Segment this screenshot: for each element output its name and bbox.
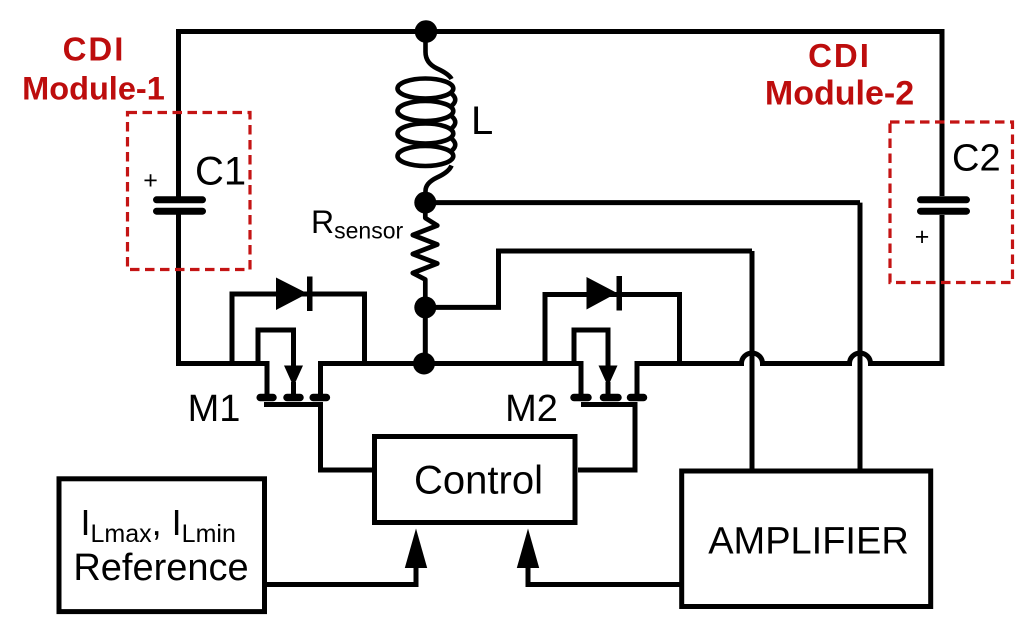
svg-text:+: + bbox=[143, 167, 158, 195]
inductor L exit squiggle bbox=[426, 166, 452, 203]
wire amplifier input vertical left bbox=[750, 251, 755, 471]
capacitor C2 plates bbox=[921, 200, 967, 211]
svg-text:Module-2: Module-2 bbox=[765, 75, 914, 113]
mosfet M1 arrow tail bbox=[291, 382, 296, 396]
wire resistor bottom node to amplifier bbox=[425, 251, 752, 307]
capacitor C1 plates bbox=[157, 200, 203, 211]
node junction dot L-Rsensor bbox=[414, 192, 436, 214]
svg-text:Module-1: Module-1 bbox=[22, 71, 165, 107]
wire bottom rail right segment with crossover hops bbox=[637, 353, 945, 395]
node junction dot Rsensor bottom bbox=[414, 296, 436, 318]
mosfet M2 diode loop bbox=[545, 295, 680, 364]
svg-text:M2: M2 bbox=[505, 388, 558, 430]
mosfet M1 drain terminal is in rail path; gate electrode and gate wire to control bbox=[264, 405, 374, 471]
inductor right connector arcs bbox=[452, 94, 455, 151]
wire bottom rail middle segment M1 source to M2 drain bbox=[321, 364, 582, 396]
wire right vertical below C2 bbox=[940, 215, 945, 366]
wire amplifier to control arrow feed bbox=[528, 566, 684, 585]
svg-text:CDI: CDI bbox=[63, 31, 126, 68]
amplifier block box bbox=[682, 471, 931, 607]
red dashed box CDI module 2 bbox=[890, 122, 1013, 283]
inductor L coil loops bbox=[398, 79, 454, 99]
mosfet M2 gate electrode and gate wire to control bbox=[578, 405, 635, 471]
node junction dot rail bbox=[413, 353, 435, 375]
wire sense node horizontal to amplifier bbox=[425, 200, 860, 205]
node junction dot top bbox=[415, 20, 438, 43]
svg-text:C1: C1 bbox=[195, 150, 246, 194]
diode D1 cathode bar bbox=[307, 277, 313, 312]
wire bottom rail left segment to M1 drain bbox=[176, 364, 267, 396]
svg-text:CDI: CDI bbox=[808, 37, 871, 74]
inductor L entry squiggle bbox=[426, 34, 452, 79]
mosfet M1 arrow head bbox=[284, 366, 303, 387]
wire top rail and CDI module verticals bbox=[179, 32, 943, 198]
svg-text:Control: Control bbox=[414, 459, 543, 503]
svg-text:Reference: Reference bbox=[73, 547, 248, 589]
svg-text:C2: C2 bbox=[952, 138, 1001, 180]
mosfet M1 contact bars bbox=[260, 394, 326, 402]
diode D2 triangle bbox=[587, 277, 618, 310]
arrow into control from amplifier bbox=[517, 529, 539, 569]
diode D1 loop around M1 bbox=[232, 294, 365, 364]
mosfet M2 arrow head bbox=[599, 366, 618, 387]
svg-text:L: L bbox=[471, 99, 493, 143]
mosfet M2 contact bars bbox=[574, 394, 644, 402]
wire left vertical below C1 bbox=[176, 214, 181, 366]
wire amplifier input vertical right bbox=[858, 203, 863, 471]
wire reference to control arrow feed bbox=[262, 566, 416, 585]
svg-text:AMPLIFIER: AMPLIFIER bbox=[708, 521, 909, 563]
diode D1 triangle bbox=[276, 278, 308, 311]
svg-text:M1: M1 bbox=[188, 388, 241, 430]
wire resistor bottom to rail bbox=[423, 305, 428, 364]
control block box bbox=[375, 437, 576, 523]
diode D2 cathode bar bbox=[617, 276, 623, 311]
mosfet M2 body arrow loop bbox=[574, 330, 608, 366]
svg-text:+: + bbox=[915, 223, 930, 251]
red dashed box CDI module 1 bbox=[128, 113, 251, 270]
resistor Rsensor zigzag bbox=[413, 203, 438, 308]
reference block box bbox=[59, 479, 265, 612]
arrow into control from reference bbox=[405, 529, 427, 569]
mosfet M2 arrow tail bbox=[606, 382, 611, 396]
mosfet M1 body arrow loop bbox=[258, 330, 294, 366]
